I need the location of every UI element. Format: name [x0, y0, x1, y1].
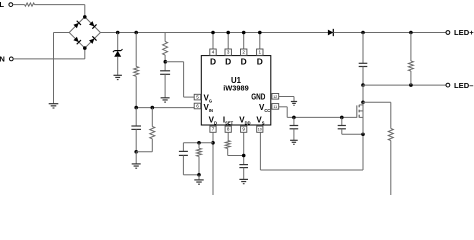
pin 6 label VIN — [204, 103, 213, 113]
pin 6 box — [194, 103, 201, 109]
wire to C6 — [182, 143, 184, 152]
resistor R10 — [408, 61, 413, 71]
svg-text:4: 4 — [212, 50, 215, 55]
transistor Q1 — [357, 102, 363, 134]
ground G7 — [291, 102, 297, 106]
ground G8 — [290, 140, 298, 144]
pin 10 box — [257, 126, 263, 132]
wire C3 to node — [135, 129, 137, 151]
wire VIN to R4 — [151, 108, 153, 127]
svg-text:2: 2 — [242, 50, 245, 55]
ground G1 — [49, 104, 59, 108]
svg-text:LED–: LED– — [454, 81, 473, 90]
wire rail to pin 1 — [259, 33, 261, 50]
wire pin12 gnd — [279, 97, 294, 102]
wire to C9 — [341, 117, 343, 125]
pin 3 label D — [225, 56, 231, 66]
pin 4 box — [210, 49, 216, 55]
resistor R2 — [134, 67, 139, 77]
svg-text:N: N — [0, 55, 5, 64]
pin 12 label GND — [251, 92, 265, 101]
wire VIN bus — [136, 107, 194, 109]
wire R11 down — [390, 141, 392, 196]
junction drain — [361, 101, 365, 105]
svg-text:LED+: LED+ — [454, 28, 474, 37]
wire to R11 — [390, 102, 392, 128]
junction LEDminus — [361, 83, 365, 87]
svg-text:GND: GND — [251, 92, 265, 101]
wire VS sense — [260, 132, 363, 170]
resistor R8 — [225, 141, 230, 149]
pin 12 box — [272, 94, 279, 100]
pin 8 box — [225, 126, 231, 132]
junction gate-C9 — [340, 116, 344, 120]
wire rail to pin 2 — [243, 33, 245, 50]
junction source-C9 — [361, 132, 365, 136]
U1 part number — [223, 83, 248, 92]
svg-text:6: 6 — [196, 104, 199, 109]
junction rail pin 3 — [226, 31, 230, 35]
wire R2 to VIN node — [135, 76, 137, 107]
pin 9 label VDD — [239, 115, 250, 125]
resistor R3 — [163, 42, 168, 56]
op-amp U1 body — [201, 56, 270, 125]
zener Z1 — [113, 49, 123, 57]
junction rail-R2 — [134, 31, 138, 35]
pin 2 box — [241, 49, 247, 55]
terminal LED- — [446, 81, 473, 90]
svg-text:9: 9 — [242, 127, 245, 132]
wire main rail right — [333, 32, 446, 34]
wire rail to pin 4 — [212, 33, 214, 50]
capacitor C10 — [359, 63, 368, 66]
svg-text:D: D — [241, 56, 247, 66]
pin 5 box — [194, 94, 201, 100]
resistor R11 — [388, 129, 393, 141]
wire R10 to LED- — [410, 71, 412, 85]
capacitor C6 — [179, 151, 188, 155]
svg-text:12: 12 — [273, 95, 277, 99]
capacitor C2 — [160, 71, 170, 75]
svg-text:D: D — [257, 56, 263, 66]
pin 2 label D — [241, 56, 247, 66]
ground G5 — [194, 180, 203, 184]
wire bridge left to ground — [54, 33, 70, 104]
ground G4 — [161, 98, 170, 102]
wire LED- to drain — [362, 85, 364, 102]
diode D5 — [328, 29, 333, 36]
wire VDD down — [243, 132, 245, 164]
junction rail-R10 — [409, 31, 413, 35]
junction VD-snubber — [211, 141, 215, 145]
svg-text:5: 5 — [196, 95, 199, 100]
wire R8 to VDD node — [228, 149, 244, 156]
wire R3 to node — [164, 55, 166, 71]
pin 10 label VS — [256, 115, 264, 125]
wire ISET down — [227, 132, 229, 140]
svg-text:3: 3 — [227, 50, 230, 55]
junction VIN-C3 — [134, 106, 138, 110]
svg-text:L: L — [0, 0, 4, 9]
svg-text:10: 10 — [258, 128, 262, 132]
wire R7 down — [198, 156, 200, 174]
wire rail to R3 — [164, 33, 166, 42]
pin 1 label D — [257, 56, 263, 66]
ground G2 — [114, 75, 122, 79]
junction VG node — [164, 60, 168, 64]
wire zener to ground — [117, 57, 119, 76]
bridge diode D1 upper-left — [73, 21, 81, 29]
wire VG to pin5 — [165, 62, 194, 97]
wire rail to R2 — [135, 33, 137, 67]
junction bridge top — [83, 15, 87, 19]
pin 9 box — [241, 126, 247, 132]
U1 designator — [231, 76, 242, 85]
capacitor C9 — [338, 126, 346, 129]
pin 7 box — [210, 126, 216, 132]
wire LED- rail — [363, 84, 446, 86]
fuse F1 — [25, 3, 35, 6]
svg-text:D: D — [210, 56, 216, 66]
junction VDD-R8 — [242, 154, 246, 158]
resistor R4 — [150, 127, 155, 139]
terminal L — [0, 0, 13, 9]
bridge diode D3 lower-left — [73, 37, 81, 45]
pin 3 box — [225, 49, 231, 55]
wire rail to R10 — [410, 33, 412, 62]
pin 11 label VCC — [259, 103, 270, 113]
junction snubber R — [197, 141, 201, 145]
wire C6 down — [183, 155, 199, 174]
terminal LED+ — [446, 28, 474, 37]
pin 1 box — [257, 49, 263, 55]
junction LED- R10 — [409, 83, 413, 87]
wire rail to C10 — [362, 33, 364, 64]
pin 4 label D — [210, 56, 216, 66]
junction rail pin 2 — [242, 31, 246, 35]
svg-text:D: D — [225, 56, 231, 66]
terminal N — [0, 55, 13, 64]
junction rail-C10 — [361, 31, 365, 35]
capacitor C8 — [290, 126, 299, 129]
svg-text:8: 8 — [227, 127, 230, 132]
pin 11 box — [272, 104, 279, 110]
wire C8 to ground — [293, 129, 295, 141]
wire C2 to ground — [164, 74, 166, 98]
wire R4 down — [136, 139, 152, 152]
capacitor C3 — [131, 126, 141, 129]
wire VIN to C3 — [135, 108, 137, 126]
wire VCC line — [279, 107, 357, 118]
junction snubber gnd — [197, 173, 201, 177]
wire C10 to LED- rail — [362, 67, 364, 86]
pin 5 label VG — [204, 93, 213, 103]
svg-text:1: 1 — [259, 50, 262, 55]
junction rail-zener — [116, 31, 120, 35]
junction rail pin 4 — [211, 31, 215, 35]
pin 7 label VD — [209, 115, 217, 125]
bridge diode D2 upper-right — [89, 21, 97, 29]
wire rail to zener — [117, 33, 119, 51]
svg-text:11: 11 — [273, 105, 277, 109]
ground G6 — [239, 179, 248, 183]
pin 8 label ISET — [223, 115, 234, 125]
wire L to fuse — [13, 4, 25, 6]
bridge BR1 outline — [69, 17, 100, 48]
wire to C8 — [293, 117, 295, 125]
wire snubber top — [183, 142, 213, 144]
wire C9 to source — [342, 129, 363, 134]
wire N to bridge bottom — [13, 48, 85, 59]
junction rail pin 1 — [258, 31, 262, 35]
junction C3-R4 — [134, 150, 138, 154]
svg-text:7: 7 — [212, 127, 215, 132]
wire C7 to ground — [243, 168, 245, 180]
wire node to ground — [135, 152, 137, 164]
wire fuse to bridge top — [35, 5, 85, 17]
junction bridge bottom — [83, 46, 87, 50]
junction VIN-R4 — [151, 106, 155, 110]
wire main rail left — [100, 32, 328, 34]
wire snubber to ground — [198, 175, 200, 180]
junction VCC-C8 — [292, 116, 296, 120]
wire to R7 — [198, 143, 200, 148]
resistor R7 — [197, 148, 202, 156]
svg-text:iW3989: iW3989 — [223, 83, 248, 92]
ground G3 — [132, 164, 141, 168]
bridge diode D4 lower-right — [89, 36, 97, 44]
wire drain node right — [363, 101, 391, 103]
wire rail to pin 3 — [227, 33, 229, 50]
wire VD down — [212, 132, 214, 195]
capacitor C7 — [239, 165, 248, 168]
